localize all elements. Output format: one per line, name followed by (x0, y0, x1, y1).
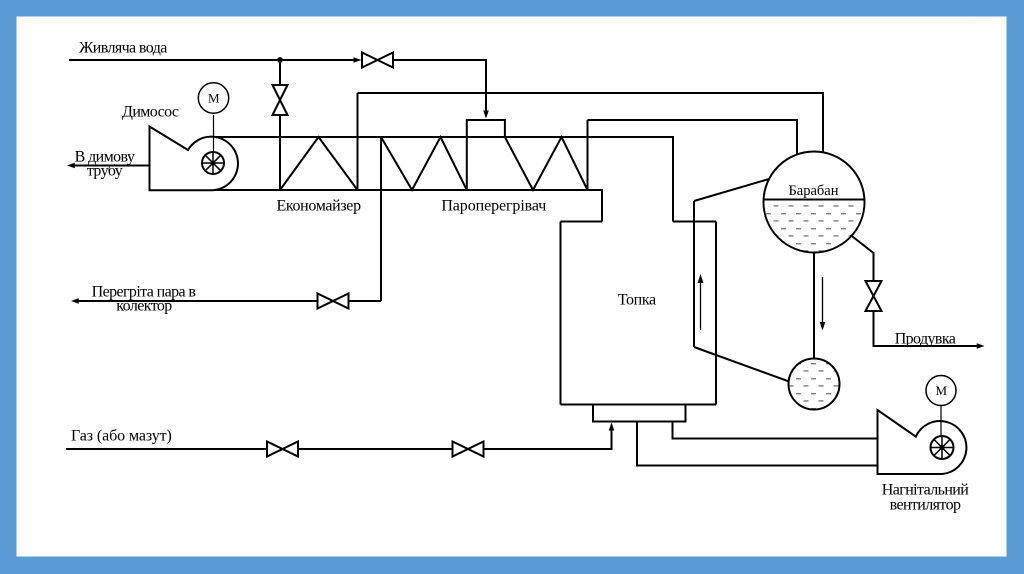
svg-text:Топка: Топка (618, 292, 656, 309)
svg-text:колектор: колектор (116, 298, 172, 315)
wire economizer to drum (358, 93, 824, 153)
riser channel left wall (693, 201, 695, 347)
svg-text:трубу: трубу (87, 163, 123, 180)
drum water fill (763, 201, 865, 254)
wire junction to valve V2 (279, 60, 281, 85)
riser channel top diagonal to drum (694, 179, 769, 201)
fd fan hub (939, 445, 944, 450)
valve V6 steam collector (318, 294, 349, 309)
blowdown arrow (977, 343, 985, 349)
gas flow up arrow in channel (700, 282, 702, 330)
burner arrow up (609, 423, 615, 431)
gas line segment 1 (66, 448, 267, 450)
fd fan motor shaft (940, 406, 942, 448)
superheater outlet riser (587, 120, 589, 190)
furnace top left segment (561, 221, 603, 223)
svg-text:Газ (або мазут): Газ (або мазут) (71, 428, 172, 445)
wire superheater to drum (588, 120, 798, 155)
downcomer flow arrow (822, 277, 824, 322)
superheater coil bank 2 (505, 137, 588, 190)
svg-text:Барабан: Барабан (788, 183, 838, 199)
wire feed water to attemperator branch (393, 60, 486, 111)
burner step box (593, 405, 686, 422)
valve V4 gas (453, 442, 484, 457)
feed water flow arrow (354, 57, 362, 63)
riser channel bottom diagonal to lower drum (694, 347, 789, 382)
drum water level line (764, 199, 865, 201)
valve V2 economizer inlet (273, 85, 288, 115)
fd fan impeller (931, 436, 954, 459)
feed water line (69, 59, 354, 61)
air duct upper from fan (673, 422, 878, 439)
blowdown diagonal from drum (851, 235, 874, 281)
superheater coil (381, 137, 467, 190)
air duct lower from fan (637, 422, 878, 466)
motor M1 (198, 83, 228, 113)
svg-text:Пароперегрівач: Пароперегрівач (441, 198, 546, 215)
wire valve V2 to economizer (279, 115, 281, 190)
svg-text:М: М (936, 383, 948, 398)
svg-text:Димосос: Димосос (122, 104, 179, 121)
svg-text:вентилятор: вентилятор (890, 497, 961, 514)
drum vessel (764, 152, 865, 253)
smoke exhauster housing scroll outline (150, 127, 238, 191)
flue duct top wall (213, 137, 673, 222)
smoke exhauster motor shaft (213, 115, 215, 163)
smoke exhauster hub (211, 161, 216, 166)
steam collector arrow (71, 298, 79, 304)
furnace left wall (560, 222, 562, 405)
blowdown outlet line (874, 311, 978, 346)
chimney outlet line (74, 165, 150, 167)
attemperator box on duct (467, 120, 505, 190)
node junction dot feed line (277, 57, 283, 63)
chimney arrow (67, 163, 75, 169)
economizer outlet riser (357, 93, 359, 190)
valve V5 blowdown (866, 281, 882, 311)
superheater inlet downpipe (380, 137, 382, 301)
lower drum vessel (789, 359, 840, 410)
smoke exhauster impeller (202, 152, 224, 174)
furnace bottom (561, 404, 717, 406)
svg-text:Живляча вода: Живляча вода (79, 40, 167, 57)
arrow into attemperator (483, 111, 489, 119)
furnace right wall (715, 222, 717, 405)
svg-text:Продувка: Продувка (895, 331, 956, 348)
valve V3 gas (267, 442, 298, 457)
superheated steam line to collector (349, 300, 382, 302)
flue duct bottom wall (150, 190, 603, 222)
steam collector line west (78, 300, 318, 302)
gas line segment 2 (298, 448, 453, 450)
gas line segment 3 to burner (484, 431, 612, 450)
furnace top right segment (673, 221, 716, 223)
fd fan housing scroll outline (878, 410, 967, 474)
valve V1 feed water (362, 53, 393, 68)
svg-text:Економайзер: Економайзер (276, 198, 361, 215)
downcomer drum to lower drum (813, 253, 815, 359)
economizer coil (280, 137, 358, 190)
motor M2 (926, 376, 956, 406)
svg-text:М: М (208, 91, 220, 106)
